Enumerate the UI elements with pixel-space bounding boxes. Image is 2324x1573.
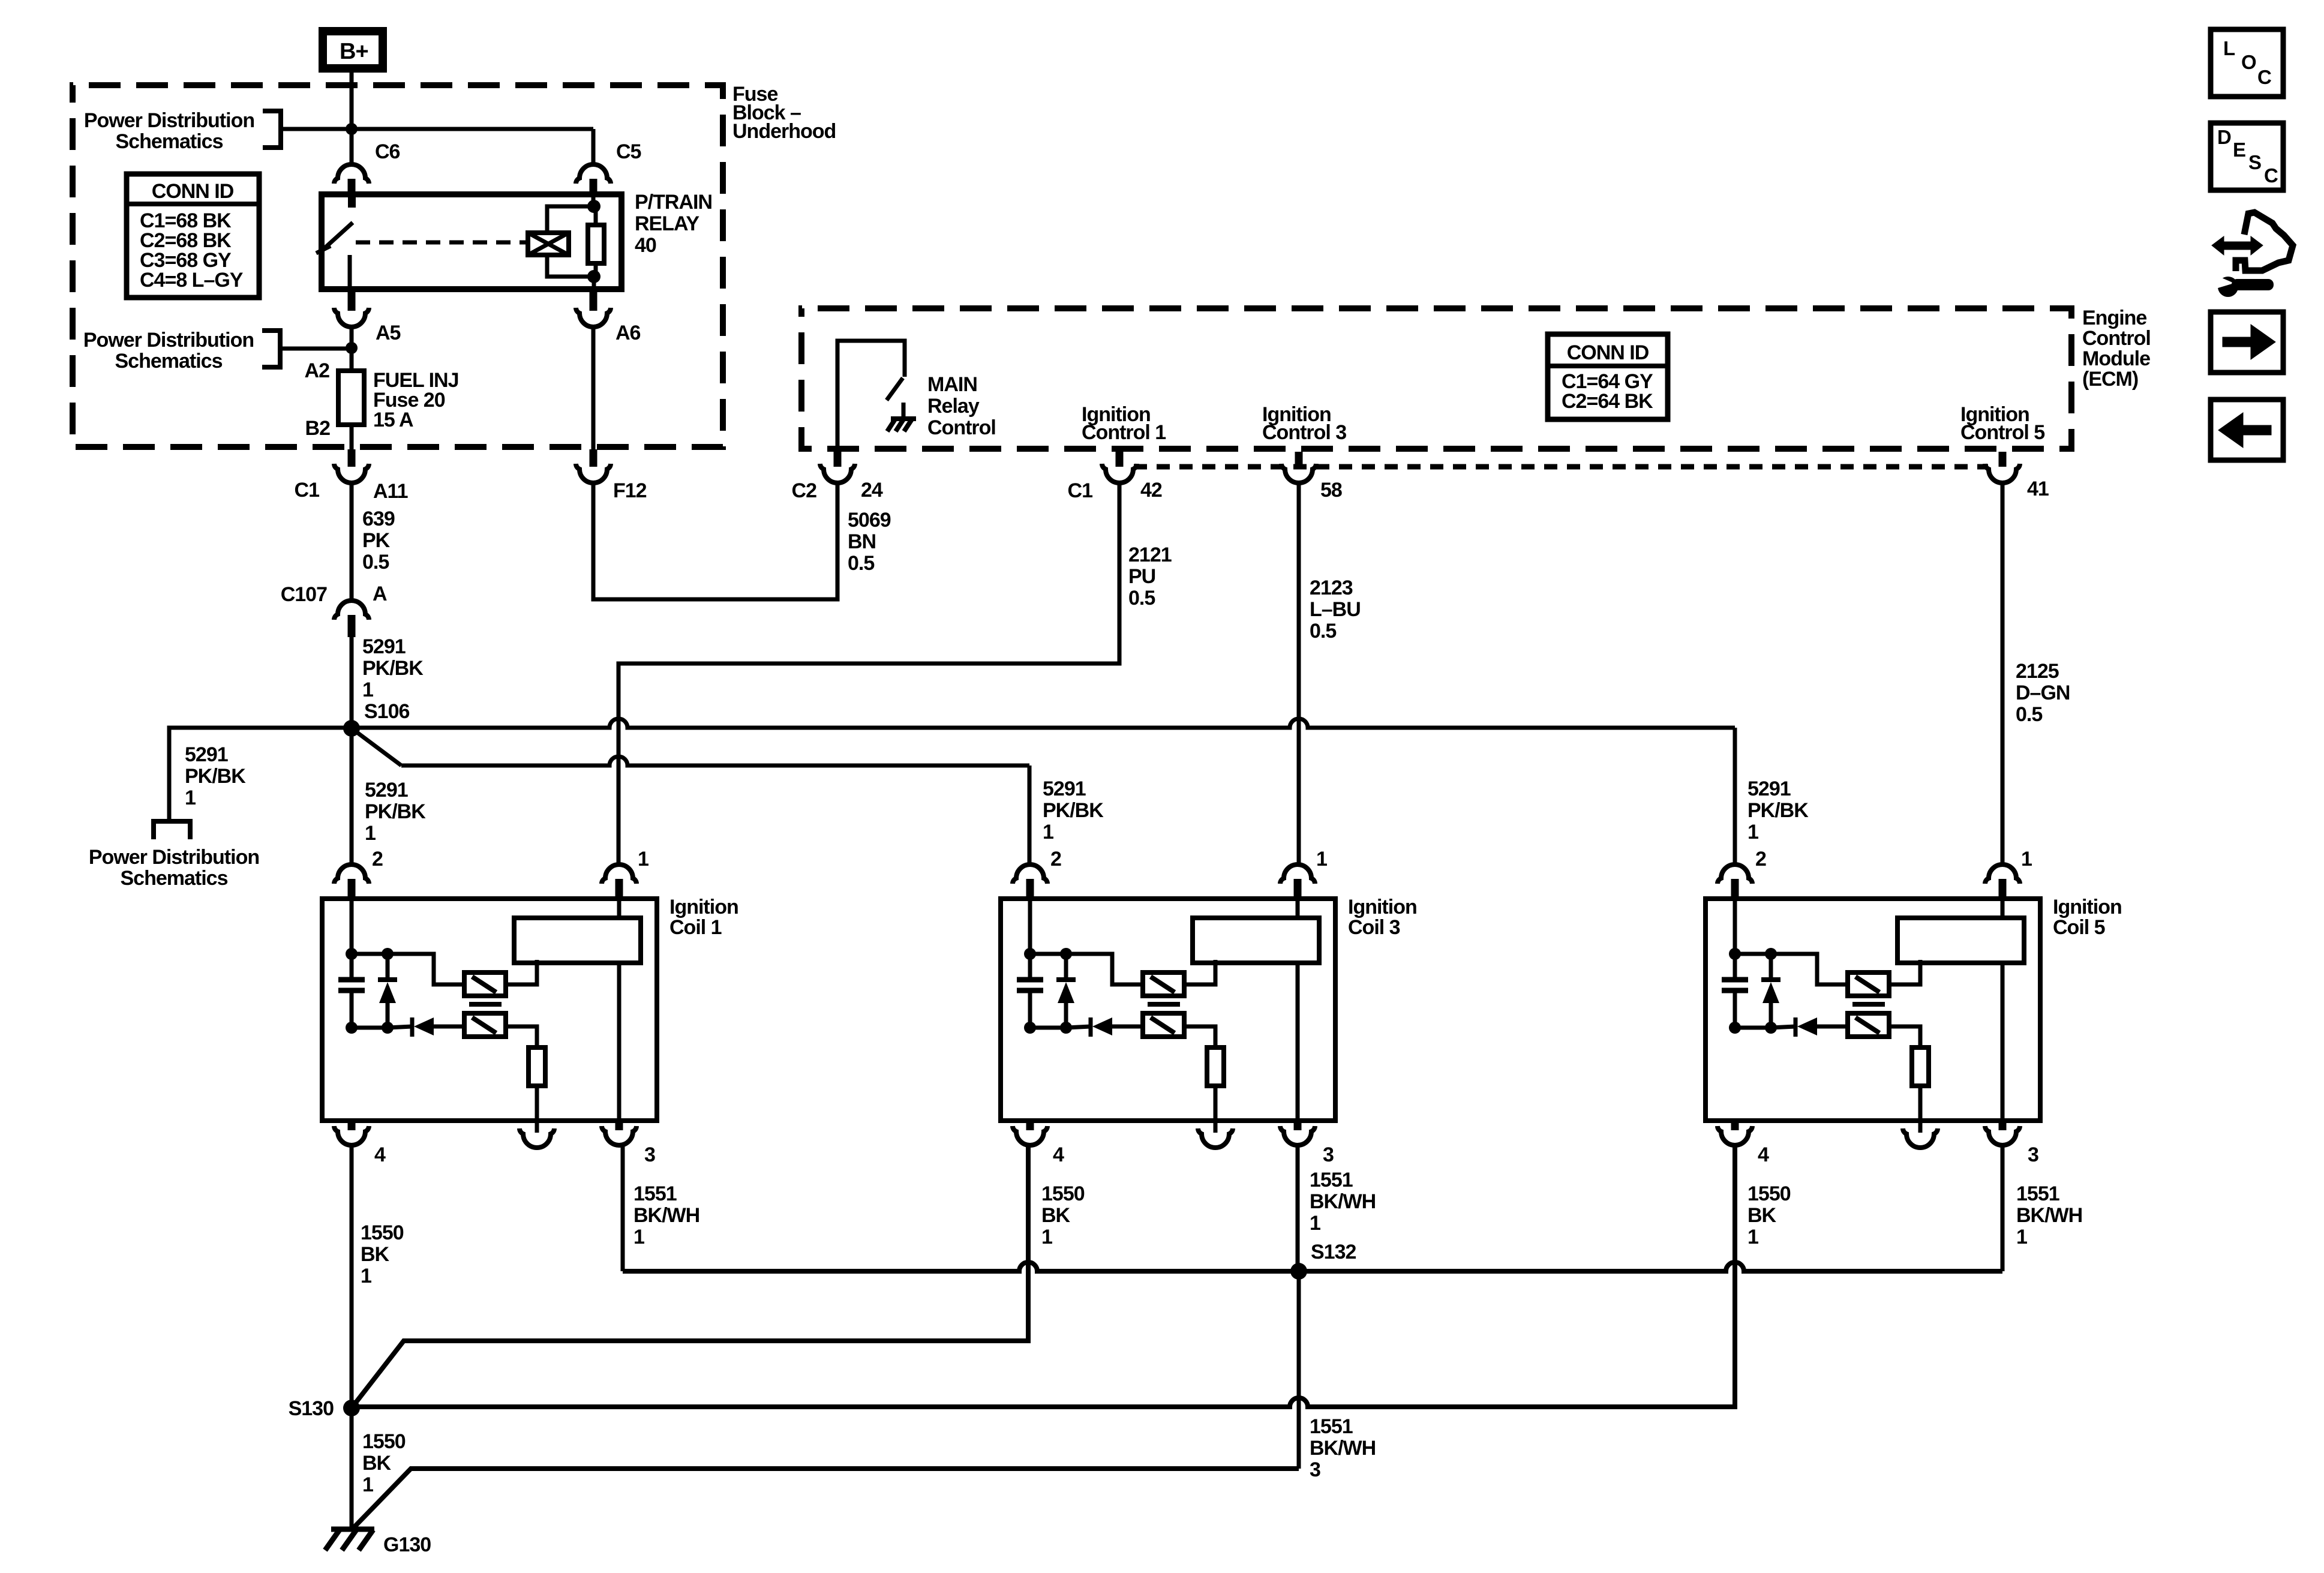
- wire A6 to block edge: [591, 326, 596, 449]
- svg-text:BK: BK: [1041, 1204, 1071, 1227]
- svg-text:2125: 2125: [2016, 660, 2059, 683]
- svg-text:BK/WH: BK/WH: [1310, 1190, 1376, 1213]
- ignition coil 5 pin 1 connector: [1985, 864, 2020, 884]
- svg-text:Control 1: Control 1: [1082, 421, 1166, 444]
- svg-text:Coil 3: Coil 3: [1348, 916, 1400, 939]
- svg-text:1: 1: [362, 1473, 373, 1496]
- svg-text:A: A: [373, 583, 387, 605]
- coil 1 core bar: [469, 1002, 502, 1007]
- svg-text:3: 3: [1323, 1143, 1334, 1166]
- svg-text:CONN ID: CONN ID: [152, 180, 234, 203]
- svg-text:Ignition: Ignition: [2053, 896, 2122, 918]
- coil 3 capacitor: [1017, 977, 1043, 983]
- trunk wire to coil 3 pin 2: [401, 757, 1029, 766]
- svg-text:L–BU: L–BU: [1310, 598, 1361, 621]
- svg-text:Module: Module: [2082, 347, 2150, 370]
- svg-text:3: 3: [2028, 1143, 2038, 1166]
- svg-text:1: 1: [365, 822, 376, 845]
- svg-text:1550: 1550: [1747, 1182, 1791, 1205]
- coil 1 resistor lower lead: [535, 1086, 539, 1121]
- svg-text:C107: C107: [281, 583, 327, 606]
- coil 3 primary winding: [1143, 972, 1184, 996]
- svg-text:40: 40: [635, 234, 656, 257]
- coil 5 J1-J2 wire: [1735, 952, 1771, 956]
- wire coil 3 pin 3 to S132: [1296, 1145, 1300, 1271]
- wire bracket to A2 node: [280, 347, 352, 351]
- CONN ID table (fuse block): [127, 174, 259, 298]
- svg-text:2121: 2121: [1128, 544, 1172, 566]
- svg-text:S: S: [2248, 151, 2261, 173]
- coil 1 secondary output wire: [617, 899, 621, 918]
- ground G130 symbol: [331, 1527, 374, 1532]
- wire fuse to block edge: [350, 425, 354, 449]
- coil 1 pin 4 connector: [348, 1121, 356, 1130]
- coil 1 secondary coil block: [514, 918, 641, 963]
- diagonal branch at S106: [352, 728, 401, 766]
- wire S106 down to coil 1 pin 2: [350, 728, 354, 864]
- svg-text:BK: BK: [361, 1243, 390, 1266]
- svg-text:B2: B2: [305, 417, 331, 440]
- svg-text:Schematics: Schematics: [116, 130, 223, 153]
- coil 1 spark output connector: [535, 1121, 539, 1133]
- coil 5 capacitor: [1722, 977, 1748, 983]
- svg-text:BK/WH: BK/WH: [633, 1204, 699, 1227]
- relay solenoid top lead: [547, 206, 594, 233]
- svg-text:4: 4: [1053, 1143, 1064, 1166]
- C1 connector dotted line: [1134, 464, 1988, 470]
- svg-text:Engine: Engine: [2082, 307, 2146, 329]
- svg-text:RELAY: RELAY: [635, 212, 699, 235]
- relay node bottom: [587, 270, 600, 283]
- svg-text:5291: 5291: [1747, 778, 1791, 800]
- splice node S106: [343, 720, 360, 737]
- coil 1 diode: [410, 1017, 415, 1037]
- junction node A2: [346, 342, 358, 354]
- component view icon double arrow: [2212, 236, 2263, 255]
- wire pin 41 to coil 5 pin 1: [2001, 483, 2005, 864]
- svg-text:PK/BK: PK/BK: [1747, 799, 1809, 822]
- svg-text:Power Distribution: Power Distribution: [89, 846, 259, 869]
- coil 3 pin 3 connector: [1294, 1121, 1302, 1130]
- fuse block underhood dashed boundary: [73, 85, 723, 447]
- svg-text:PK: PK: [362, 529, 391, 552]
- svg-text:O: O: [2241, 51, 2256, 73]
- svg-text:S130: S130: [289, 1397, 334, 1420]
- main relay control switch blade: [887, 378, 903, 400]
- previous page arrow icon: [2211, 400, 2283, 460]
- next page arrow icon: [2211, 312, 2283, 373]
- coil 5 secondary output wire: [2001, 899, 2005, 918]
- B+ battery terminal box: [323, 31, 383, 68]
- svg-text:1550: 1550: [361, 1221, 404, 1244]
- svg-text:Underhood: Underhood: [732, 120, 836, 143]
- svg-text:MAIN: MAIN: [927, 373, 977, 396]
- inline connector C107: [334, 601, 369, 620]
- wire pin 42 to coil 1 pin 1: [618, 483, 1119, 864]
- LOC icon box: [2211, 29, 2283, 97]
- coil 3 node J4: [1060, 1022, 1072, 1034]
- svg-text:Schematics: Schematics: [121, 867, 228, 890]
- svg-text:0.5: 0.5: [1310, 620, 1336, 643]
- power distribution bracket (mid): [262, 331, 280, 367]
- svg-text:BK: BK: [362, 1452, 392, 1475]
- svg-text:1: 1: [1316, 848, 1327, 870]
- connector pin 41: [1999, 452, 2007, 467]
- relay coil actuation dashed line: [356, 241, 528, 245]
- main relay control ground lead: [902, 403, 906, 419]
- svg-text:5069: 5069: [848, 509, 891, 532]
- coil 5 pin 4 connector: [1731, 1121, 1739, 1130]
- wire S132 down: [1297, 1271, 1301, 1469]
- connector A5: [348, 289, 356, 311]
- svg-text:C5: C5: [616, 140, 641, 163]
- svg-text:BK: BK: [1747, 1204, 1777, 1227]
- svg-text:G130: G130: [383, 1533, 431, 1556]
- wire coil 5 pin 4 to S130: [352, 1145, 1735, 1407]
- coil 1 feedback winding: [464, 1013, 506, 1037]
- svg-text:C: C: [2257, 66, 2271, 88]
- splice node S130: [343, 1400, 360, 1416]
- wire coil 1 pin 4 to S130: [350, 1145, 354, 1408]
- coil 3 node J1: [1024, 948, 1036, 960]
- svg-text:0.5: 0.5: [2016, 703, 2042, 726]
- svg-text:S132: S132: [1311, 1241, 1356, 1263]
- svg-text:Ignition: Ignition: [1348, 896, 1417, 918]
- connector C5: [576, 164, 611, 184]
- svg-text:4: 4: [374, 1143, 386, 1166]
- svg-text:0.5: 0.5: [362, 551, 389, 574]
- svg-text:PK/BK: PK/BK: [1043, 799, 1104, 822]
- svg-text:PK/BK: PK/BK: [185, 765, 246, 788]
- relay switch contact tick: [316, 246, 331, 253]
- coil 3 feedback to resistor lead: [1184, 1026, 1215, 1047]
- connector C2 pin 24: [834, 452, 842, 467]
- svg-text:PU: PU: [1128, 565, 1155, 588]
- svg-text:2: 2: [1050, 848, 1061, 870]
- relay resistor: [588, 225, 604, 263]
- coil 1 pin 2 internal wire: [350, 899, 354, 954]
- svg-text:1: 1: [2016, 1226, 2027, 1248]
- coil 5 pin 2 internal wire: [1733, 899, 1737, 954]
- wire 1551 run to ground: [352, 1469, 1299, 1530]
- coil 5 node J2: [1765, 948, 1777, 960]
- coil 5 node J1: [1729, 948, 1741, 960]
- svg-text:C1: C1: [295, 479, 320, 502]
- wire S130 to ground: [350, 1408, 354, 1530]
- wire pin 58 to coil 3 pin 1: [1297, 483, 1301, 864]
- wire coil 3 pin 4 to S130: [352, 1145, 1028, 1408]
- svg-text:15 A: 15 A: [373, 409, 413, 431]
- svg-text:3: 3: [1310, 1458, 1320, 1481]
- svg-text:5291: 5291: [365, 779, 408, 801]
- component view icon outline: [2236, 212, 2293, 271]
- connector pin 58: [1295, 452, 1303, 467]
- svg-text:A11: A11: [373, 480, 408, 503]
- S132 splice line: [623, 1262, 2002, 1271]
- coil 1 node J3: [346, 1022, 358, 1034]
- svg-text:1: 1: [638, 848, 648, 870]
- coil 1 primary winding right lead: [506, 960, 537, 984]
- trunk wire S106 to coil 5 pin 2: [352, 719, 1735, 728]
- svg-text:P/TRAIN: P/TRAIN: [635, 191, 712, 214]
- coil 5 spark output connector: [1918, 1121, 1923, 1133]
- svg-text:41: 41: [2027, 478, 2049, 500]
- coil 3 J1-J2 wire: [1030, 952, 1066, 956]
- svg-text:Schematics: Schematics: [115, 350, 223, 373]
- relay switch input stub: [348, 194, 356, 208]
- wire B+ down to junction: [350, 68, 354, 166]
- svg-text:E: E: [2233, 139, 2245, 161]
- coil 5 node J3: [1729, 1022, 1741, 1034]
- relay switch blade: [321, 223, 353, 251]
- coil 5 zener diode: [1761, 977, 1780, 982]
- relay resistor top wire: [594, 206, 598, 225]
- svg-text:C6: C6: [375, 140, 400, 163]
- wire C107 to S106: [350, 637, 354, 728]
- svg-text:1: 1: [362, 679, 373, 701]
- coil 3 diode: [1089, 1017, 1093, 1037]
- main relay control driver wire: [837, 341, 905, 449]
- FUEL INJ fuse element: [338, 371, 364, 425]
- coil 5 primary winding: [1848, 972, 1889, 996]
- coil 5 core bar: [1852, 1002, 1885, 1007]
- CONN ID table (ECM): [1548, 334, 1668, 419]
- coil 3 node J2: [1060, 948, 1072, 960]
- svg-text:PK/BK: PK/BK: [362, 657, 424, 680]
- svg-text:Relay: Relay: [927, 395, 980, 418]
- relay C5 pin wire: [591, 194, 596, 206]
- wire coil 1 pin 3 down: [621, 1145, 625, 1271]
- svg-text:1: 1: [361, 1265, 371, 1287]
- ignition coil 1 box: [322, 899, 657, 1121]
- svg-text:1: 1: [1747, 821, 1758, 843]
- svg-text:2123: 2123: [1310, 577, 1353, 599]
- connector F12: [590, 449, 597, 467]
- ignition coil 3 pin 2 connector: [1013, 864, 1047, 884]
- svg-text:0.5: 0.5: [1128, 587, 1155, 610]
- wire coil 5 pin 3 to S132 line: [2001, 1145, 2005, 1271]
- wire 5069 BN loop F12 to pin 24: [593, 483, 837, 599]
- wire A11 down to C107: [350, 483, 354, 601]
- coil 1 internal resistor: [529, 1047, 545, 1086]
- relay A6 pin wire: [592, 277, 596, 289]
- svg-text:Control 3: Control 3: [1262, 421, 1346, 444]
- coil 1 wire J2 to primary winding: [388, 954, 465, 984]
- svg-text:Power Distribution: Power Distribution: [83, 329, 254, 352]
- svg-text:1550: 1550: [362, 1430, 406, 1453]
- relay solenoid bottom lead: [547, 255, 594, 277]
- svg-text:C2: C2: [792, 479, 817, 502]
- main relay control ground symbol: [891, 416, 916, 421]
- power distribution bracket (top): [263, 111, 281, 148]
- svg-text:1: 1: [1747, 1226, 1758, 1248]
- svg-text:Ignition: Ignition: [669, 896, 738, 918]
- svg-text:4: 4: [1758, 1143, 1769, 1166]
- svg-text:C1: C1: [1068, 479, 1093, 502]
- svg-text:A5: A5: [376, 322, 401, 344]
- svg-text:639: 639: [362, 508, 395, 530]
- P/TRAIN relay box: [322, 194, 621, 289]
- svg-text:C2=64 BK: C2=64 BK: [1562, 390, 1653, 413]
- wire junction to C5 drop: [352, 127, 593, 131]
- coil 3 node J3: [1024, 1022, 1036, 1034]
- svg-text:Control: Control: [927, 416, 996, 439]
- coil 3 zener diode: [1056, 977, 1076, 982]
- coil 1 zener diode: [378, 977, 397, 982]
- svg-text:1: 1: [185, 786, 196, 809]
- ignition coil 1 pin 2 connector: [334, 864, 369, 884]
- engine control module dashed boundary: [801, 308, 2071, 449]
- coil 1 primary winding: [464, 972, 506, 996]
- coil 3 feedback winding: [1143, 1013, 1184, 1037]
- coil 3 primary winding right lead: [1184, 960, 1215, 984]
- ignition coil 1 pin 1 connector: [602, 864, 636, 884]
- svg-text:S106: S106: [364, 700, 409, 723]
- svg-text:Control: Control: [2082, 327, 2151, 350]
- svg-text:42: 42: [1140, 479, 1162, 502]
- coil 1 capacitor: [338, 977, 365, 983]
- coil 5 pin 3 connector: [1999, 1121, 2007, 1130]
- svg-text:2: 2: [1755, 848, 1766, 870]
- connector C6: [334, 164, 369, 184]
- coil 5 primary winding right lead: [1889, 960, 1920, 984]
- svg-text:5291: 5291: [1043, 778, 1086, 800]
- svg-text:D: D: [2217, 126, 2231, 148]
- relay resistor bottom wire: [594, 263, 598, 277]
- svg-text:L: L: [2223, 37, 2235, 59]
- relay node top: [587, 200, 600, 213]
- wire A5 to fuse: [350, 326, 354, 371]
- svg-text:BK/WH: BK/WH: [1310, 1437, 1376, 1460]
- coil 5 secondary coil block: [1897, 918, 2024, 963]
- coil 3 core bar: [1148, 1002, 1180, 1007]
- ignition coil 3 pin 1 connector: [1280, 864, 1315, 884]
- power distribution staple (S106 branch): [154, 821, 190, 839]
- coil 1 node J2: [382, 948, 394, 960]
- relay solenoid coil box: [528, 233, 569, 255]
- svg-text:B+: B+: [340, 39, 368, 64]
- component view icon wrench: [2218, 277, 2238, 297]
- svg-text:PK/BK: PK/BK: [365, 800, 426, 823]
- coil 5 internal resistor: [1912, 1047, 1929, 1086]
- svg-text:5291: 5291: [362, 635, 406, 658]
- svg-text:1551: 1551: [1310, 1415, 1353, 1438]
- svg-text:1550: 1550: [1041, 1182, 1085, 1205]
- svg-text:1: 1: [1041, 1226, 1052, 1248]
- wire down to C5: [591, 129, 596, 166]
- svg-text:1: 1: [1043, 821, 1053, 843]
- relay switch lower contact wire: [348, 255, 352, 289]
- coil 1 J1-J2 wire: [352, 952, 388, 956]
- coil 1 feedback to resistor lead: [506, 1026, 537, 1047]
- coil 3 secondary output wire: [1296, 899, 1300, 918]
- svg-text:F12: F12: [613, 479, 647, 502]
- ignition coil 3 box: [1001, 899, 1335, 1121]
- connector C1 A11: [348, 449, 356, 467]
- coil 1 node J1: [346, 948, 358, 960]
- svg-text:BK/WH: BK/WH: [2016, 1204, 2082, 1227]
- svg-text:(ECM): (ECM): [2082, 368, 2138, 391]
- splice node S132: [1290, 1263, 1307, 1280]
- svg-text:24: 24: [861, 479, 883, 502]
- coil 3 secondary coil block: [1193, 918, 1319, 963]
- svg-text:1551: 1551: [1310, 1169, 1353, 1191]
- svg-text:0.5: 0.5: [848, 552, 874, 575]
- svg-text:CONN ID: CONN ID: [1567, 341, 1649, 364]
- svg-text:C: C: [2264, 164, 2278, 187]
- coil 1 pin 3 connector: [615, 1121, 623, 1130]
- svg-text:58: 58: [1320, 479, 1342, 502]
- svg-text:3: 3: [644, 1143, 655, 1166]
- coil 5 diode: [1794, 1017, 1798, 1037]
- coil 5 wire J2 to primary winding: [1771, 954, 1848, 984]
- ignition coil 5 pin 2 connector: [1718, 864, 1752, 884]
- svg-text:C4=8 L–GY: C4=8 L–GY: [140, 269, 244, 292]
- junction node at B+ branch: [346, 123, 358, 135]
- svg-text:Power Distribution: Power Distribution: [84, 109, 254, 132]
- connector A6: [590, 289, 597, 311]
- svg-text:1: 1: [1310, 1212, 1320, 1235]
- svg-text:Coil 1: Coil 1: [669, 916, 722, 939]
- svg-text:1551: 1551: [633, 1182, 677, 1205]
- connector C1 pin 42: [1116, 452, 1124, 467]
- svg-text:Coil 5: Coil 5: [2053, 916, 2105, 939]
- svg-text:A2: A2: [305, 359, 330, 382]
- coil 3 pin 2 internal wire: [1028, 899, 1032, 954]
- coil 3 resistor lower lead: [1214, 1086, 1218, 1121]
- coil 5 feedback winding: [1848, 1013, 1889, 1037]
- coil 5 resistor lower lead: [1918, 1086, 1923, 1121]
- DESC icon box: [2211, 123, 2283, 190]
- coil 5 feedback to resistor lead: [1889, 1026, 1920, 1047]
- coil 3 internal resistor: [1207, 1047, 1224, 1086]
- svg-text:A6: A6: [615, 322, 641, 344]
- svg-text:1551: 1551: [2016, 1182, 2059, 1205]
- wire S106 branch left: [169, 728, 352, 819]
- svg-text:2: 2: [372, 848, 383, 870]
- ignition coil 5 box: [1706, 899, 2040, 1121]
- svg-text:D–GN: D–GN: [2016, 682, 2070, 704]
- svg-text:5291: 5291: [185, 743, 228, 766]
- svg-text:BN: BN: [848, 530, 876, 553]
- svg-text:1: 1: [633, 1226, 644, 1248]
- coil 1 node J4: [382, 1022, 394, 1034]
- coil 5 node J4: [1765, 1022, 1777, 1034]
- coil 3 wire J2 to primary winding: [1066, 954, 1143, 984]
- coil 3 spark output connector: [1214, 1121, 1218, 1133]
- svg-text:1: 1: [2021, 848, 2032, 870]
- coil 3 pin 4 connector: [1026, 1121, 1034, 1130]
- svg-text:Control 5: Control 5: [1960, 421, 2044, 444]
- wire bracket to junction: [281, 127, 352, 131]
